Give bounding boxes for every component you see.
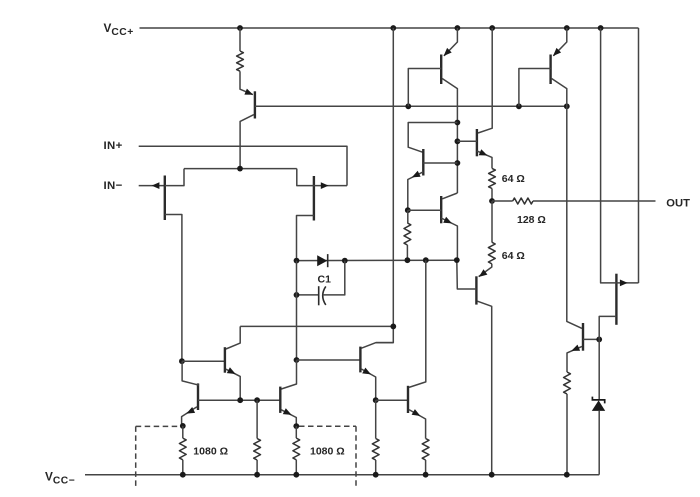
arrow: Q9 emitter (NPN, outward) bbox=[412, 409, 421, 416]
wire: OUT node to R3 bbox=[492, 200, 513, 202]
wire: Q12 emitter lead bbox=[182, 407, 197, 426]
arrow: Q6 emitter (NPN, outward) bbox=[443, 217, 452, 224]
node: Q12 emitter / R8 junction bbox=[180, 423, 186, 429]
wire: Q6 emitter lead bbox=[441, 218, 457, 260]
arrow: Q1 emitter (PNP, into bar) bbox=[244, 89, 253, 95]
arrow: Q2 emitter (PNP, into bar) bbox=[444, 48, 452, 56]
node: diode cathode junction bbox=[342, 258, 348, 264]
node: rail457 / Q4 base tie bbox=[455, 160, 461, 166]
wire: Q2 collector down rail-457 bbox=[442, 79, 457, 194]
node: VCC- / R7 bbox=[423, 472, 429, 478]
svg-text:128 Ω: 128 Ω bbox=[517, 214, 546, 226]
node: VCC- / R10 bbox=[293, 472, 299, 478]
wire: VCC- bottom rail bbox=[85, 474, 599, 476]
svg-text:64 Ω: 64 Ω bbox=[502, 250, 525, 262]
wire: Q7 collector lead bbox=[477, 301, 491, 475]
label VCC+ bbox=[104, 21, 134, 38]
node: tail current junction bbox=[237, 166, 243, 172]
resistor R2 (64 ohm top) bbox=[489, 168, 496, 188]
transistor Q9 bar bbox=[407, 386, 409, 413]
arrow: Q8 emitter (NPN, outward) bbox=[362, 368, 371, 375]
node: Q8 emitter / Q9 base node bbox=[373, 397, 379, 403]
wire: Q13 base lead bbox=[583, 338, 599, 340]
node: base rail / Q3 collector bbox=[564, 103, 570, 109]
node: VCC- / R11 bbox=[564, 472, 570, 478]
zener D2 cathode bar bbox=[592, 397, 604, 404]
resistor R8 (1080 ohm) bbox=[179, 438, 186, 460]
wire: minor-loop node line bbox=[297, 259, 458, 261]
node: base rail / Q3 base bbox=[516, 103, 522, 109]
resistor R9 bbox=[254, 439, 261, 461]
wire: Q11 base lead bbox=[182, 360, 225, 362]
transistor J2 bar (right input JFET) bbox=[313, 176, 315, 221]
node: Q11 emitter junction bbox=[237, 397, 243, 403]
arrow: Q7 emitter (PNP, into bar) bbox=[479, 269, 488, 277]
node: VCC+ / Q2 emitter junction bbox=[455, 25, 461, 31]
wire: R6 to VCC- rail bbox=[375, 460, 377, 475]
node: R5 junction bbox=[405, 257, 411, 263]
wire: Q1 collector lead bbox=[240, 115, 254, 169]
node: VCC- / R8 bbox=[180, 472, 186, 478]
resistor R1 bbox=[237, 51, 244, 71]
svg-text:IN−: IN− bbox=[104, 180, 123, 192]
wire: R7 to VCC- rail bbox=[425, 460, 427, 475]
wire: J1 source lead bbox=[165, 169, 184, 186]
wire: Q9 base lead bbox=[376, 399, 408, 401]
transistor J3 bar (output JFET) bbox=[615, 274, 617, 325]
wire: dashed offset link right bbox=[299, 425, 356, 427]
wire: R9 down from base line bbox=[256, 400, 258, 438]
wire: Q2 emitter lead bbox=[444, 28, 457, 56]
label IN+ bbox=[104, 140, 123, 152]
transistor Q6 bar bbox=[440, 196, 442, 223]
wire: Q5 emitter lead bbox=[477, 151, 492, 169]
transistor Q13 bar bbox=[582, 323, 584, 351]
diode D1 triangle bbox=[317, 255, 327, 266]
node: R9 junction bbox=[254, 397, 260, 403]
node: VCC+ / Q5 collector junction bbox=[489, 25, 495, 31]
wire: C1 left lead bbox=[297, 294, 319, 296]
wire: dashed offset stub right bbox=[355, 426, 357, 486]
wire: Q12 base line bbox=[198, 399, 280, 401]
wire: R10 to VCC- rail bbox=[295, 460, 297, 475]
wire: Q8 base lead bbox=[297, 359, 361, 361]
node: Q8 base node bbox=[294, 357, 300, 363]
zener D2 triangle bbox=[592, 400, 605, 411]
arrow: J1 gate (points left) bbox=[152, 182, 160, 189]
wire: D2 anode lead bbox=[598, 339, 600, 400]
node: VCC- / R6 bbox=[373, 472, 379, 478]
resistor R4 (64 ohm bottom) bbox=[488, 242, 495, 264]
label IN- bbox=[104, 180, 123, 192]
transistor Q8 bar bbox=[359, 347, 361, 373]
wire: R9 to VCC- rail bbox=[256, 460, 258, 475]
wire: Q10 emitter lead bbox=[281, 410, 296, 426]
wire: J3 drain lead bbox=[599, 316, 616, 339]
wire: Q11 emitter lead bbox=[226, 369, 240, 400]
label VCC- bbox=[45, 469, 75, 486]
label 1080 ohm (left) bbox=[193, 445, 228, 457]
transistor J1 bar (left input JFET) bbox=[164, 176, 166, 221]
label 128 ohm bbox=[517, 214, 546, 226]
label 64 ohm (bottom) bbox=[502, 250, 525, 262]
capacitor C1 right plate (curved) bbox=[323, 286, 326, 305]
transistor Q5 bar bbox=[476, 129, 478, 156]
wire: Q3 base lead bbox=[519, 69, 551, 107]
wire: J1 drain lead bbox=[165, 215, 182, 362]
svg-text:64 Ω: 64 Ω bbox=[502, 173, 525, 185]
wire: rail-393 (Q8 collector feed) bbox=[376, 28, 393, 343]
node: VCC+ / R1 junction bbox=[237, 25, 243, 31]
wire: Q3 emitter lead bbox=[553, 28, 566, 56]
node: VCC+ / J3 source junction bbox=[598, 25, 604, 31]
wire: J2 source lead bbox=[297, 169, 314, 186]
node: C1 / J2 drain junction bbox=[294, 292, 300, 298]
wire: Q8 emitter lead bbox=[361, 369, 375, 400]
svg-text:C1: C1 bbox=[318, 273, 332, 285]
transistor Q3 bar bbox=[549, 55, 551, 85]
wire: right rail from VCC+ down to output JFET gate bbox=[638, 28, 640, 283]
wire: Q7 base lead bbox=[457, 260, 477, 289]
node: diode anode junction bbox=[294, 258, 300, 264]
wire: Q9 emitter lead bbox=[409, 410, 426, 439]
wire: Q6 base lead bbox=[408, 209, 441, 211]
wire: OUT node to R4 bbox=[491, 201, 493, 242]
wire: IN- lead bbox=[139, 185, 165, 187]
wire: J3 source lead bbox=[601, 28, 617, 283]
wire: Q4 emitter node to R5 bbox=[407, 210, 409, 223]
wire: Q6 collector lead bbox=[442, 193, 457, 199]
wire: R5 to node line bbox=[406, 245, 408, 260]
node: VCC+ / Q3 emitter junction bbox=[564, 25, 570, 31]
wire: R11 to VCC- rail bbox=[566, 394, 568, 475]
wire: Q12 collector lead bbox=[182, 361, 199, 385]
label 64 ohm (top) bbox=[502, 173, 525, 185]
svg-text:1080 Ω: 1080 Ω bbox=[310, 445, 345, 457]
node: Q13 base / J3 drain / D2 node bbox=[596, 337, 602, 343]
diode D1 cathode bar bbox=[327, 254, 329, 267]
transistor Q7 bar bbox=[475, 276, 477, 304]
node: VCC- / Q7 collector bbox=[489, 472, 495, 478]
node: Q6 emitter / Q7 base junction bbox=[454, 257, 460, 263]
transistor Q2 bar bbox=[440, 55, 442, 85]
wire: R1 to Q1 emitter bbox=[240, 71, 253, 94]
label 1080 ohm (right) bbox=[310, 445, 345, 457]
wire: Q5 base lead bbox=[457, 140, 477, 142]
arrow: Q12 emitter (NPN, outward) bbox=[186, 407, 195, 414]
wire: D2 to VCC- rail bbox=[598, 411, 600, 475]
wire: base rail Q1-Q2-Q3 bbox=[255, 105, 567, 107]
wire: dashed offset stub left bbox=[135, 426, 137, 486]
transistor Q4 bar bbox=[422, 149, 424, 176]
resistor R7 bbox=[422, 439, 429, 461]
arrow: Q4 emitter (NPN, outward) bbox=[412, 171, 421, 178]
node: VCC+ / rail-393 junction bbox=[390, 25, 396, 31]
arrow: Q3 emitter (PNP, into bar) bbox=[553, 48, 561, 56]
wire: J3 gate lead bbox=[616, 282, 638, 284]
svg-text:OUT: OUT bbox=[666, 197, 690, 209]
wire: Q2 base lead bbox=[408, 69, 441, 107]
node: rail457 / Q5 base tie bbox=[455, 138, 461, 144]
arrow: Q11 emitter (NPN, outward) bbox=[227, 367, 236, 374]
resistor R6 bbox=[372, 439, 379, 461]
wire: Q4 collector lead bbox=[408, 123, 457, 153]
wire: VCC+ top rail bbox=[140, 27, 639, 29]
arrow: Q10 emitter (NPN, outward) bbox=[283, 408, 292, 415]
svg-text:1080 Ω: 1080 Ω bbox=[193, 445, 228, 457]
wire: VCC+ to R1 bbox=[239, 28, 241, 51]
arrow: Q5 emitter (NPN, outward) bbox=[479, 149, 488, 155]
wire: dashed offset link left bbox=[136, 425, 180, 427]
wire: Q4 emitter lead bbox=[408, 172, 424, 210]
wire: IN+ lead bbox=[139, 146, 347, 185]
wire: mirror line y=326 to rail-393 bbox=[240, 325, 393, 327]
node: VCC- / R9 bbox=[254, 472, 260, 478]
wire: Q3 collector down to Q13 bbox=[552, 79, 582, 329]
wire: R2 to OUT node bbox=[491, 189, 493, 202]
transistor Q1 bar bbox=[254, 91, 256, 118]
wire: Q9 collector lead bbox=[409, 260, 426, 387]
transistor Q12 bar bbox=[197, 383, 199, 410]
label OUT bbox=[666, 197, 690, 209]
node: OUT node bbox=[489, 198, 495, 204]
wire: R10 top lead bbox=[295, 426, 297, 438]
node: Q10 emitter / R10 junction bbox=[293, 423, 299, 429]
arrow: J3 gate (points right) bbox=[620, 280, 628, 287]
wire: J2 gate from IN+ bbox=[314, 185, 347, 187]
wire: Q4 base lead bbox=[423, 162, 457, 164]
wire: Q13 emitter lead bbox=[567, 346, 582, 372]
wire: R3 to OUT terminal bbox=[533, 200, 656, 202]
transistor Q11 bar bbox=[224, 347, 226, 373]
wire: R8 to VCC- rail bbox=[182, 460, 184, 475]
wire: Q5 collector lead bbox=[478, 28, 492, 133]
wire: R4 to Q7 emitter bbox=[479, 264, 492, 277]
wire: Q10 collector lead bbox=[281, 360, 296, 389]
resistor R3 (128 ohm) bbox=[513, 198, 533, 204]
wire: common source line bbox=[184, 168, 297, 170]
wire: R8 top lead bbox=[182, 426, 184, 438]
wire: J2 drain lead bbox=[297, 216, 314, 261]
svg-text:IN+: IN+ bbox=[104, 140, 123, 152]
wire: Q8 collector lead bbox=[361, 343, 393, 349]
resistor R5 bbox=[404, 223, 411, 245]
arrow: Q13 emitter (NPN, outward) bbox=[571, 345, 580, 351]
wire: R6 from Q8 emitter node bbox=[375, 400, 377, 438]
arrow: J2 gate (points right) bbox=[321, 182, 329, 189]
node: rail457 / Q4 collector tie bbox=[455, 120, 461, 126]
node: rail-393 / mirror line junction bbox=[390, 324, 396, 330]
transistor Q10 bar bbox=[279, 387, 281, 413]
node: Q11 base node bbox=[179, 358, 185, 364]
capacitor C1 left plate bbox=[318, 286, 320, 305]
wire: C1 right lead bbox=[323, 261, 345, 295]
resistor R10 (1080 ohm) bbox=[293, 438, 300, 460]
node: Q9 collector junction bbox=[423, 257, 429, 263]
wire: J2 drain continues down bbox=[296, 261, 298, 360]
node: base rail / Q2 base bbox=[405, 103, 411, 109]
node: Q4 emitter / Q6 base node bbox=[405, 207, 411, 213]
wire: Q11 collector lead bbox=[226, 326, 240, 349]
label C1 bbox=[318, 273, 332, 285]
resistor R11 bbox=[564, 372, 571, 394]
